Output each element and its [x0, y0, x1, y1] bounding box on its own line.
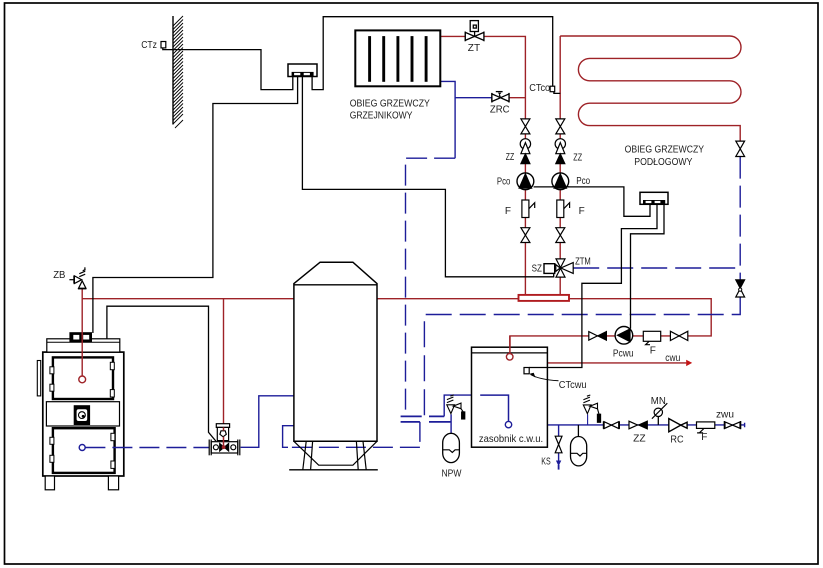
actuator SZ [544, 264, 555, 274]
valve ZTM (3-way mixing) [556, 259, 573, 277]
wire: KS drain stub [558, 425, 560, 461]
wire: blue boiler return dashed [85, 447, 209, 449]
sensor CTco [550, 86, 555, 92]
sensor CTz [161, 42, 166, 48]
wire: red branch2 vertical [559, 36, 561, 295]
svg-text:Pcwu: Pcwu [613, 349, 634, 360]
wire: controller to boiler panel [93, 77, 298, 334]
vessel NPW [443, 433, 460, 462]
svg-text:MN: MN [651, 396, 666, 407]
wire: red ZRC right segment [509, 97, 525, 99]
filter F zwu [697, 422, 715, 433]
filter F branch1 [522, 200, 529, 218]
svg-text:KS: KS [541, 457, 551, 468]
wire: boiler to mixer device [107, 306, 216, 441]
svg-text:GRZEJNIKOWY: GRZEJNIKOWY [350, 110, 413, 122]
wire: red cwu outlet [547, 362, 686, 364]
wire: red mixer drop [223, 299, 225, 444]
valve KS drain [555, 436, 562, 453]
node DHW cold port [505, 421, 511, 427]
wire: red supply radiator to ZT to branch1 [440, 36, 525, 295]
svg-text:Pco: Pco [497, 176, 511, 187]
svg-text:CTco: CTco [529, 83, 550, 94]
safety valve ZB [69, 267, 86, 288]
pump Pcwu [615, 327, 633, 345]
collector bar [519, 295, 570, 301]
svg-text:SZ: SZ [532, 264, 542, 275]
valve cwu loop [670, 331, 687, 340]
svg-text:Pco: Pco [576, 176, 590, 187]
wire: flange line B [401, 421, 452, 423]
wire: red boiler supply vertical with ZB [81, 289, 83, 376]
valve branch1 bottom [521, 228, 530, 235]
sensor CTcwu [524, 368, 559, 381]
wire: CTz sensor to controller [163, 48, 293, 90]
svg-text:ZTM: ZTM [575, 257, 591, 268]
wire: NPW safety group stubs [450, 414, 452, 433]
valve (branch1 shutoff top) [521, 119, 530, 127]
check valve ZZ branch1 [520, 139, 530, 149]
valve zwu inlet [724, 421, 740, 429]
pump Pco branch1 [517, 173, 534, 190]
check valve ZZ branch2 [555, 139, 565, 149]
wire: CTco stub to pipe [554, 92, 560, 94]
wire: CTcwu wire inside tank [529, 367, 547, 369]
wire: buffer tank bottom port corner [283, 426, 294, 448]
boiler control panel [70, 333, 92, 342]
boiler supply port circle [79, 376, 86, 383]
svg-text:CTcwu: CTcwu [559, 380, 587, 391]
check valve floor return [736, 280, 745, 297]
controller U1 [288, 64, 317, 77]
node cwu arrow [686, 360, 692, 366]
svg-text:cwu: cwu [665, 353, 680, 364]
wire: KS vessel stub [577, 425, 579, 437]
wire: controller to SZ actuator [302, 77, 553, 277]
boiler body [43, 339, 124, 476]
svg-text:ZZ: ZZ [633, 434, 646, 445]
valve ZT (thermostatic) [465, 21, 484, 42]
svg-text:NPW: NPW [442, 468, 462, 479]
valve branch2 bottom [556, 228, 565, 235]
svg-text:PODŁOGOWY: PODŁOGOWY [634, 156, 692, 168]
wire: blue dashed radiator return to flange [406, 158, 456, 416]
safety valve cwu group [583, 395, 600, 425]
wire: cold water riser into DHW tank [444, 395, 508, 421]
wire: navy dashed floor return vertical [739, 157, 741, 280]
check valve ZZ zwu [629, 421, 647, 429]
svg-text:F: F [579, 206, 585, 217]
wall (hatched) [173, 16, 183, 128]
DHW coil inlet pipe [509, 336, 511, 354]
node KS drain arrow [556, 461, 561, 470]
svg-text:OBIEG GRZEWCZY: OBIEG GRZEWCZY [350, 98, 430, 110]
wire: pump line to floor controller [534, 187, 650, 216]
wire: floor controller to Pcwu pump [631, 204, 665, 328]
wire: blue radiator return solid [440, 81, 455, 158]
valve (branch2 shutoff top) [556, 119, 565, 127]
boiler return port circle [79, 445, 85, 451]
wire: blue mixer to buffer tank [241, 396, 294, 448]
boiler middle band [46, 402, 119, 426]
valve floor supply [736, 141, 745, 156]
pump Pco branch2 [552, 173, 569, 190]
svg-text:zasobnik c.w.u.: zasobnik c.w.u. [479, 433, 543, 445]
svg-text:ZT: ZT [468, 43, 480, 54]
svg-text:OBIEG GRZEWCZY: OBIEG GRZEWCZY [625, 144, 705, 156]
wire: red collector bar to cwu loop [510, 299, 711, 354]
svg-text:ZRC: ZRC [490, 104, 510, 115]
svg-text:ZB: ZB [53, 270, 66, 281]
wire: flange line A [401, 415, 445, 417]
wire: red main supply boiler to buffer tank [82, 298, 294, 300]
DHW tank zasobnik [472, 347, 548, 447]
node mixer red port [222, 445, 226, 449]
wire: blue zwu cold water line [547, 423, 744, 428]
svg-text:ZZ: ZZ [506, 152, 514, 163]
safety valve NPW group [447, 395, 465, 419]
svg-text:RC: RC [670, 434, 683, 445]
boiler side pipe [37, 361, 40, 396]
boiler legs [45, 476, 54, 490]
mixing device (boiler return protection) [209, 424, 240, 456]
svg-text:CTz: CTz [141, 40, 157, 51]
radiator [355, 30, 440, 86]
valve ZRC (bypass) [492, 92, 509, 103]
check valve ZZ cwu loop [589, 332, 607, 341]
buffer tank stand [289, 441, 378, 470]
wire: red floor serpentine [560, 36, 741, 141]
wire: blue return under tank dashed [288, 422, 420, 447]
wire: navy dash ZTM to floor return [573, 267, 740, 269]
wire: pump line across pump2 [552, 186, 569, 188]
boiler lower door [53, 428, 115, 473]
wire: red buffer tank to collector bar [377, 298, 519, 300]
wire: navy floor return lower to dash-dot run [424, 297, 740, 416]
vessel KS [571, 437, 587, 466]
wire: floor controller to CTcwu sensor [529, 204, 657, 367]
filter F cwu loop [643, 331, 660, 344]
valve zwu shutoff [603, 421, 619, 429]
node DHW hot port [506, 354, 513, 361]
svg-text:F: F [505, 206, 511, 217]
filter F branch2 [557, 200, 564, 218]
floor circuit controller U2 [640, 192, 668, 204]
svg-text:zwu: zwu [716, 409, 734, 420]
wire: controller to top rail to CTco sensor [312, 17, 553, 90]
boiler draft fan [74, 406, 89, 425]
wire: blue ZRC left segment [455, 97, 492, 99]
svg-text:F: F [650, 345, 656, 356]
heating branch 2 fittings [552, 119, 570, 243]
buffer tank [294, 262, 377, 441]
valve RC (reducer) [669, 419, 687, 432]
heating branch 1 fittings [517, 119, 535, 243]
svg-text:ZZ: ZZ [573, 153, 582, 164]
DHW cold inlet inside [480, 395, 508, 421]
svg-text:F: F [701, 432, 707, 443]
boiler upper door [53, 357, 113, 399]
manometer MN [652, 403, 667, 425]
